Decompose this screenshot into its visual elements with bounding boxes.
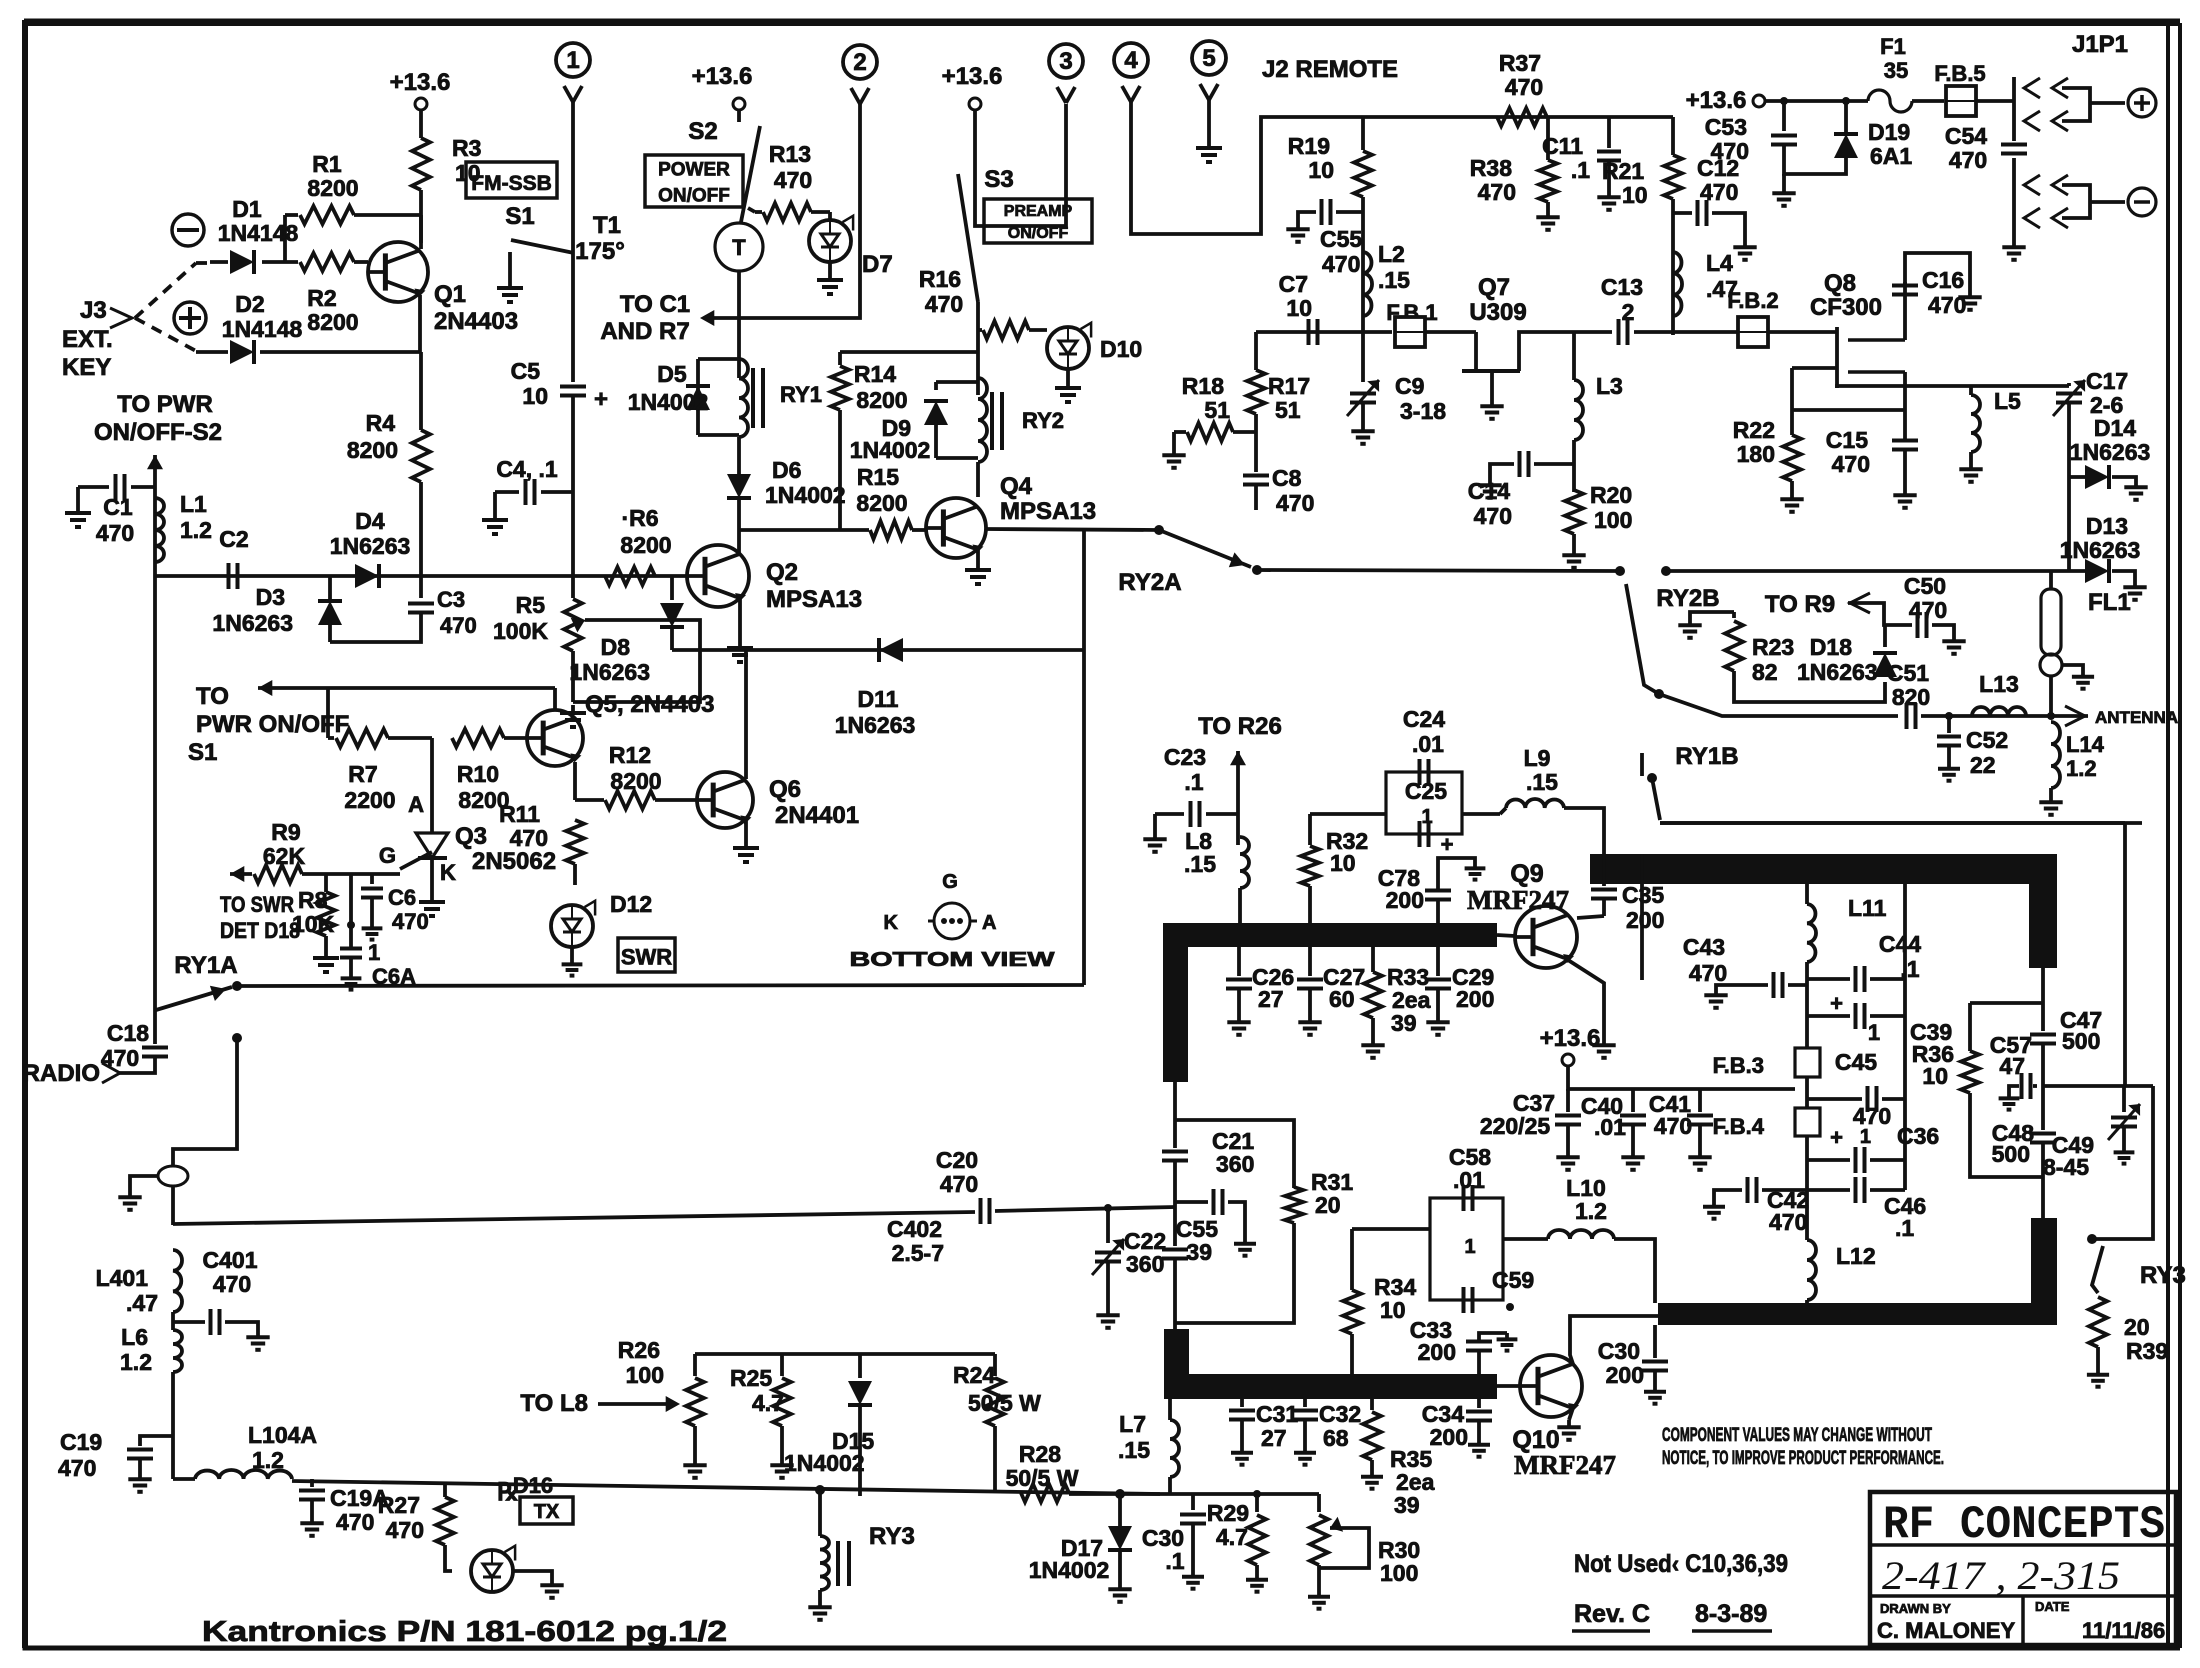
svg-text:+: + <box>1830 1125 1843 1150</box>
svg-text:C53: C53 <box>1705 114 1747 140</box>
svg-text:R27: R27 <box>378 1492 420 1518</box>
svg-text:R17: R17 <box>1268 373 1310 399</box>
svg-text:L14: L14 <box>2066 732 2105 757</box>
svg-text:1N4002: 1N4002 <box>765 482 846 508</box>
svg-text:27: 27 <box>1258 986 1284 1012</box>
svg-text:Q2: Q2 <box>766 559 798 586</box>
svg-text:DATE: DATE <box>2035 1599 2070 1614</box>
svg-text:39: 39 <box>1394 1492 1420 1518</box>
svg-text:200: 200 <box>1626 907 1664 933</box>
svg-text:39: 39 <box>1391 1010 1417 1036</box>
svg-text:R20: R20 <box>1590 482 1632 508</box>
svg-text:1N4002: 1N4002 <box>850 437 931 463</box>
svg-text:1N6263: 1N6263 <box>2060 537 2141 563</box>
svg-text:1N6263: 1N6263 <box>835 712 916 738</box>
svg-text:.1: .1 <box>1165 1548 1184 1574</box>
svg-text:470: 470 <box>925 291 963 317</box>
svg-text:1: 1 <box>1421 806 1432 828</box>
svg-text:DET D18: DET D18 <box>220 918 300 943</box>
svg-text:R2: R2 <box>307 285 336 311</box>
svg-text:J1P1: J1P1 <box>2072 31 2128 58</box>
svg-text:1.2: 1.2 <box>2066 756 2097 781</box>
svg-text:3-18: 3-18 <box>1400 398 1446 424</box>
svg-text:10: 10 <box>1308 157 1334 183</box>
svg-text:D10: D10 <box>1100 336 1142 362</box>
svg-text:L3: L3 <box>1596 373 1623 399</box>
svg-text:1N4148: 1N4148 <box>222 316 303 342</box>
svg-text:Q6: Q6 <box>769 776 801 803</box>
svg-text:D6: D6 <box>772 457 801 483</box>
svg-text:R7: R7 <box>348 761 377 787</box>
svg-text:L12: L12 <box>1836 1243 1876 1269</box>
svg-text:C32: C32 <box>1319 1401 1361 1427</box>
svg-text:C20: C20 <box>936 1147 978 1173</box>
svg-text:J2 REMOTE: J2 REMOTE <box>1262 56 1398 83</box>
svg-text:.15: .15 <box>1118 1437 1150 1463</box>
svg-text:D1: D1 <box>232 196 262 222</box>
svg-text:100: 100 <box>626 1362 664 1388</box>
svg-text:2-417 , 2-315: 2-417 , 2-315 <box>1882 1553 2120 1598</box>
svg-text:PREAMP: PREAMP <box>1004 203 1073 220</box>
svg-text:ON/OFF: ON/OFF <box>1008 225 1069 242</box>
svg-text:1: 1 <box>1868 1020 1880 1045</box>
svg-text:C44: C44 <box>1879 931 1921 957</box>
svg-text:ANTENNA: ANTENNA <box>2095 708 2178 727</box>
svg-text:TX: TX <box>534 1501 560 1523</box>
svg-text:1.2: 1.2 <box>180 517 212 543</box>
svg-text:RY1A: RY1A <box>174 952 237 979</box>
svg-text:8200: 8200 <box>307 309 358 335</box>
svg-text:L7: L7 <box>1119 1411 1146 1437</box>
svg-text:C16: C16 <box>1922 267 1964 293</box>
svg-text:10K: 10K <box>292 911 335 937</box>
svg-text:470: 470 <box>1654 1113 1692 1139</box>
svg-text:R23: R23 <box>1752 634 1794 660</box>
svg-text:R16: R16 <box>919 266 961 292</box>
svg-text:DRAWN BY: DRAWN BY <box>1880 1601 1951 1616</box>
svg-text:8200: 8200 <box>610 768 661 794</box>
svg-text:R14: R14 <box>854 361 896 387</box>
svg-text:.15: .15 <box>1526 769 1558 795</box>
svg-text:R1: R1 <box>312 151 342 177</box>
svg-text:10: 10 <box>1330 850 1356 876</box>
svg-text:C36: C36 <box>1897 1123 1939 1149</box>
svg-text:D4: D4 <box>355 508 385 534</box>
svg-text:C35: C35 <box>1622 882 1664 908</box>
svg-text:1.2: 1.2 <box>120 1349 152 1375</box>
svg-text:470: 470 <box>440 613 477 638</box>
svg-text:C31: C31 <box>1256 1401 1298 1427</box>
svg-text:1: 1 <box>1860 1126 1871 1148</box>
svg-text:R19: R19 <box>1288 133 1330 159</box>
svg-text:D16: D16 <box>513 1473 553 1498</box>
svg-text:1N4002: 1N4002 <box>1029 1557 1110 1583</box>
svg-text:C23: C23 <box>1164 744 1206 770</box>
svg-text:470: 470 <box>58 1455 96 1481</box>
svg-text:1N6263: 1N6263 <box>2070 439 2151 465</box>
svg-text:R9: R9 <box>271 819 300 845</box>
svg-text:L1: L1 <box>180 491 207 517</box>
svg-text:10: 10 <box>1622 182 1648 208</box>
svg-text:.1: .1 <box>1184 769 1203 795</box>
svg-text:470: 470 <box>1949 147 1987 173</box>
svg-text:1N6263: 1N6263 <box>569 659 650 685</box>
svg-text:360: 360 <box>1126 1251 1164 1277</box>
svg-text:470: 470 <box>392 909 429 934</box>
svg-text:U309: U309 <box>1469 299 1526 326</box>
svg-text:F1: F1 <box>1880 34 1906 59</box>
svg-text:1N6263: 1N6263 <box>330 533 411 559</box>
svg-text:RY2: RY2 <box>1022 408 1064 433</box>
svg-text:470: 470 <box>1928 292 1966 318</box>
svg-text:NOTICE, TO IMPROVE PRODUCT PER: NOTICE, TO IMPROVE PRODUCT PERFORMANCE. <box>1662 1448 1944 1469</box>
svg-text:Q1: Q1 <box>434 281 466 308</box>
svg-text:Q4: Q4 <box>1000 473 1033 500</box>
svg-text:BOTTOM VIEW: BOTTOM VIEW <box>850 949 1055 971</box>
svg-text:TO SWR: TO SWR <box>220 892 294 917</box>
svg-text:470: 470 <box>510 825 548 851</box>
svg-text:L4: L4 <box>1706 250 1733 276</box>
svg-text:2200: 2200 <box>344 787 395 813</box>
svg-text:+13.6: +13.6 <box>692 63 753 90</box>
svg-text:175°: 175° <box>575 238 625 265</box>
svg-text:FL1: FL1 <box>2088 589 2131 616</box>
svg-text:MRF247: MRF247 <box>1467 885 1569 915</box>
svg-text:TO: TO <box>196 683 229 710</box>
svg-text:1N4148: 1N4148 <box>218 220 299 246</box>
svg-text:1N6263: 1N6263 <box>212 610 293 636</box>
svg-text:180: 180 <box>1737 441 1775 467</box>
svg-text:EXT.: EXT. <box>62 326 113 353</box>
svg-text:.1: .1 <box>1571 157 1590 183</box>
svg-text:8200: 8200 <box>347 437 398 463</box>
svg-text:F.B.3: F.B.3 <box>1713 1053 1764 1078</box>
svg-text:S3: S3 <box>984 166 1013 193</box>
svg-text:R10: R10 <box>457 761 499 787</box>
svg-text:D18: D18 <box>1810 634 1852 660</box>
svg-text:.15: .15 <box>1378 267 1410 293</box>
svg-text:2.5-7: 2.5-7 <box>892 1240 944 1266</box>
svg-text:60: 60 <box>1329 986 1355 1012</box>
svg-text:S1: S1 <box>188 739 217 766</box>
svg-text:L5: L5 <box>1994 388 2021 414</box>
svg-text:470: 470 <box>1853 1103 1891 1129</box>
svg-text:C24: C24 <box>1403 706 1445 732</box>
svg-text:10: 10 <box>522 383 548 409</box>
svg-text:4: 4 <box>1124 47 1138 74</box>
svg-text:2: 2 <box>853 49 866 76</box>
svg-text:RY3: RY3 <box>869 1523 915 1550</box>
svg-text:RY2A: RY2A <box>1118 569 1181 596</box>
svg-text:4.7: 4.7 <box>752 1390 784 1416</box>
svg-text:TO PWR: TO PWR <box>117 391 213 418</box>
svg-text:1.2: 1.2 <box>1575 1198 1607 1224</box>
svg-text:AND R7: AND R7 <box>600 318 689 345</box>
svg-text:470: 470 <box>1769 1209 1807 1235</box>
svg-text:500: 500 <box>1992 1141 2030 1167</box>
svg-text:470: 470 <box>1276 490 1314 516</box>
svg-text:SWR: SWR <box>621 945 672 970</box>
svg-text:L104A: L104A <box>248 1422 317 1448</box>
svg-text:R22: R22 <box>1733 417 1775 443</box>
svg-text:RADIO: RADIO <box>23 1060 100 1087</box>
svg-text:50/5 W: 50/5 W <box>968 1390 1041 1416</box>
svg-text:51: 51 <box>1275 397 1301 423</box>
svg-text:C402: C402 <box>887 1216 942 1242</box>
svg-text:6A1: 6A1 <box>1870 143 1912 169</box>
svg-text:20: 20 <box>1315 1192 1341 1218</box>
svg-text:470: 470 <box>1832 451 1870 477</box>
svg-text:68: 68 <box>1323 1425 1349 1451</box>
svg-text:200: 200 <box>1606 1362 1644 1388</box>
svg-text:.01: .01 <box>1594 1114 1626 1140</box>
svg-text:8200: 8200 <box>620 532 671 558</box>
svg-text:R25: R25 <box>730 1365 772 1391</box>
svg-text:L401: L401 <box>96 1265 149 1291</box>
svg-text:C14: C14 <box>1468 478 1510 504</box>
svg-text:D14: D14 <box>2094 415 2136 441</box>
svg-text:D2: D2 <box>235 291 264 317</box>
svg-text:D5: D5 <box>657 361 687 387</box>
svg-text:4.7: 4.7 <box>1216 1524 1248 1550</box>
svg-text:1: 1 <box>566 47 579 74</box>
svg-text:R11: R11 <box>499 801 540 827</box>
svg-text:470: 470 <box>1711 138 1749 164</box>
svg-text:R12: R12 <box>609 742 651 768</box>
svg-text:TO C1: TO C1 <box>620 291 690 318</box>
svg-text:C45: C45 <box>1835 1049 1877 1075</box>
svg-text:1.2: 1.2 <box>252 1447 284 1473</box>
svg-text:R24: R24 <box>953 1362 995 1388</box>
svg-text:C3: C3 <box>437 587 465 612</box>
svg-text:Q7: Q7 <box>1478 274 1510 301</box>
svg-text:Q8: Q8 <box>1824 270 1856 297</box>
svg-text:C8: C8 <box>1272 465 1302 491</box>
svg-text:2N5062: 2N5062 <box>472 848 556 875</box>
svg-text:.15: .15 <box>1184 851 1216 877</box>
svg-text:+: + <box>1830 991 1843 1016</box>
svg-text:FM-SSB: FM-SSB <box>471 172 552 195</box>
svg-text:82: 82 <box>1752 659 1778 685</box>
svg-text:L9: L9 <box>1524 745 1551 771</box>
svg-text:F.B.5: F.B.5 <box>1934 61 1985 86</box>
svg-text:2N4401: 2N4401 <box>775 802 859 829</box>
svg-text:C401: C401 <box>203 1247 258 1273</box>
svg-text:+13.6: +13.6 <box>1540 1025 1601 1052</box>
svg-text:470: 470 <box>1474 503 1512 529</box>
svg-text:1: 1 <box>1464 1236 1475 1258</box>
svg-text:+13.6: +13.6 <box>942 63 1003 90</box>
svg-text:C25: C25 <box>1405 778 1447 804</box>
svg-text:ON/OFF-S2: ON/OFF-S2 <box>94 419 222 446</box>
svg-text:KEY: KEY <box>62 354 111 381</box>
svg-text:C6: C6 <box>388 885 416 910</box>
svg-text:.01: .01 <box>1412 731 1444 757</box>
svg-text:470: 470 <box>1909 597 1947 623</box>
svg-text:+13.6: +13.6 <box>390 69 451 96</box>
svg-text:C30: C30 <box>1598 1338 1640 1364</box>
svg-text:+: + <box>1441 832 1454 857</box>
svg-text:C1: C1 <box>103 494 133 520</box>
svg-text:10: 10 <box>1380 1297 1406 1323</box>
svg-text:200: 200 <box>1418 1339 1456 1365</box>
svg-text:ON/OFF: ON/OFF <box>658 185 730 206</box>
svg-text:T: T <box>732 235 746 260</box>
svg-text:470: 470 <box>1322 251 1360 277</box>
svg-text:360: 360 <box>1216 1151 1254 1177</box>
svg-text:3: 3 <box>1059 48 1072 75</box>
svg-text:C. MALONEY: C. MALONEY <box>1877 1618 2015 1643</box>
svg-text:TO R26: TO R26 <box>1198 713 1282 740</box>
svg-text:D13: D13 <box>2086 513 2128 539</box>
svg-text:1N4002: 1N4002 <box>628 389 709 415</box>
svg-text:8200: 8200 <box>307 175 358 201</box>
svg-text:10: 10 <box>1286 295 1312 321</box>
svg-text:C55: C55 <box>1320 226 1362 252</box>
svg-text:F.B.4: F.B.4 <box>1713 1114 1765 1139</box>
svg-text:RY3: RY3 <box>2140 1262 2186 1289</box>
svg-text:+: + <box>594 386 608 413</box>
svg-text:22: 22 <box>1970 752 1996 778</box>
svg-text:8-45: 8-45 <box>2043 1154 2089 1180</box>
svg-text:35: 35 <box>1884 58 1908 83</box>
svg-text:.01: .01 <box>1453 1167 1485 1193</box>
svg-text:R28: R28 <box>1019 1441 1061 1467</box>
svg-text:COMPONENT VALUES MAY CHANGE WI: COMPONENT VALUES MAY CHANGE WITHOUT <box>1662 1425 1932 1446</box>
svg-text:C9: C9 <box>1395 373 1424 399</box>
svg-text:470: 470 <box>774 167 812 193</box>
svg-text:100: 100 <box>1594 507 1632 533</box>
svg-text:470: 470 <box>96 520 134 546</box>
svg-text:200: 200 <box>1386 887 1424 913</box>
svg-text:TO L8: TO L8 <box>520 1390 588 1417</box>
svg-text:R5: R5 <box>516 592 546 618</box>
svg-text:2N4403: 2N4403 <box>434 308 518 335</box>
svg-text:Q9: Q9 <box>1510 860 1543 888</box>
svg-text:C2: C2 <box>219 526 248 552</box>
svg-text:Rev. C: Rev. C <box>1574 1600 1650 1628</box>
svg-text:D7: D7 <box>862 251 893 278</box>
svg-text:·R6: ·R6 <box>621 505 658 531</box>
svg-text:470: 470 <box>386 1517 424 1543</box>
svg-text:470: 470 <box>940 1171 978 1197</box>
svg-text:D12: D12 <box>610 891 652 917</box>
svg-text:62K: 62K <box>263 843 306 869</box>
svg-text:C5: C5 <box>511 358 541 384</box>
svg-text:RF CONCEPTS: RF CONCEPTS <box>1883 1499 2165 1551</box>
svg-text:R29: R29 <box>1207 1500 1249 1526</box>
svg-text:RY1B: RY1B <box>1675 743 1738 770</box>
svg-text:C7: C7 <box>1279 271 1308 297</box>
svg-text:R4: R4 <box>366 410 396 436</box>
svg-text:51: 51 <box>1204 397 1230 423</box>
svg-text:L11: L11 <box>1848 895 1887 921</box>
svg-text:TO R9: TO R9 <box>1765 591 1835 618</box>
svg-text:220/25: 220/25 <box>1480 1113 1551 1139</box>
svg-text:L2: L2 <box>1378 241 1405 267</box>
svg-text:R38: R38 <box>1470 155 1512 181</box>
svg-text:R3: R3 <box>452 135 481 161</box>
svg-text:CF300: CF300 <box>1810 294 1882 321</box>
svg-text:C51: C51 <box>1887 660 1929 686</box>
svg-text:R21: R21 <box>1602 158 1644 184</box>
svg-text:C50: C50 <box>1904 573 1946 599</box>
svg-text:R39: R39 <box>2126 1338 2168 1364</box>
svg-text:10: 10 <box>1922 1063 1948 1089</box>
svg-text:470: 470 <box>1478 179 1516 205</box>
svg-text:.47: .47 <box>126 1290 158 1316</box>
svg-text:C19: C19 <box>60 1429 102 1455</box>
svg-text:.1: .1 <box>1895 1215 1914 1241</box>
svg-text:T1: T1 <box>593 212 621 239</box>
svg-text:11/11/86: 11/11/86 <box>2082 1618 2165 1643</box>
svg-text:470: 470 <box>1689 960 1727 986</box>
svg-text:27: 27 <box>1261 1425 1287 1451</box>
svg-text:J3: J3 <box>80 297 107 324</box>
svg-text:MRF247: MRF247 <box>1514 1450 1616 1480</box>
svg-text:A: A <box>408 792 424 817</box>
svg-text:1N4002: 1N4002 <box>784 1450 865 1476</box>
svg-text:R26: R26 <box>618 1337 660 1363</box>
svg-text:R18: R18 <box>1182 373 1224 399</box>
svg-text:C4, .1: C4, .1 <box>496 456 558 482</box>
svg-text:R8: R8 <box>298 887 328 913</box>
svg-text:MPSA13: MPSA13 <box>766 586 862 613</box>
svg-text:200: 200 <box>1456 986 1494 1012</box>
svg-text:C18: C18 <box>107 1020 149 1046</box>
svg-text:8-3-89: 8-3-89 <box>1695 1600 1767 1628</box>
svg-text:Q3: Q3 <box>455 823 487 850</box>
svg-text:G: G <box>942 871 958 893</box>
svg-text:8200: 8200 <box>856 490 907 516</box>
svg-text:RY2B: RY2B <box>1656 585 1719 612</box>
svg-text:470: 470 <box>1505 74 1543 100</box>
svg-text:C52: C52 <box>1966 727 2008 753</box>
svg-text:D3: D3 <box>256 584 285 610</box>
svg-text:K: K <box>440 860 456 885</box>
svg-text:5: 5 <box>1202 45 1215 72</box>
svg-text:C17: C17 <box>2086 368 2128 394</box>
svg-text:C11: C11 <box>1542 133 1583 159</box>
svg-text:R37: R37 <box>1499 50 1541 76</box>
svg-text:470: 470 <box>336 1509 374 1535</box>
svg-text:39: 39 <box>1186 1239 1212 1265</box>
svg-text:C54: C54 <box>1945 123 1987 149</box>
svg-text:8200: 8200 <box>856 387 907 413</box>
svg-text:1: 1 <box>368 940 380 965</box>
svg-text:+13.6: +13.6 <box>1686 87 1747 114</box>
svg-text:470: 470 <box>213 1271 251 1297</box>
svg-text:L13: L13 <box>1979 671 2019 697</box>
svg-text:R13: R13 <box>769 141 811 167</box>
svg-text:F.B.2: F.B.2 <box>1727 288 1778 313</box>
svg-text:820: 820 <box>1892 684 1930 710</box>
svg-text:C15: C15 <box>1826 427 1868 453</box>
svg-text:500: 500 <box>2062 1028 2100 1054</box>
svg-text:D19: D19 <box>1868 119 1910 145</box>
svg-text:POWER: POWER <box>658 159 730 180</box>
svg-text:Kantronics P/N 181-6012 pg.1/2: Kantronics P/N 181-6012 pg.1/2 <box>202 1616 727 1648</box>
svg-text:L6: L6 <box>121 1324 148 1350</box>
svg-text:R15: R15 <box>857 464 899 490</box>
svg-text:1N6263: 1N6263 <box>1797 659 1878 685</box>
svg-text:100: 100 <box>1380 1560 1418 1586</box>
svg-text:D11: D11 <box>858 686 899 712</box>
svg-text:D8: D8 <box>601 634 631 660</box>
svg-text:Q5, 2N4403: Q5, 2N4403 <box>585 691 714 718</box>
svg-text:S1: S1 <box>505 203 534 230</box>
svg-text:C59: C59 <box>1492 1267 1534 1293</box>
